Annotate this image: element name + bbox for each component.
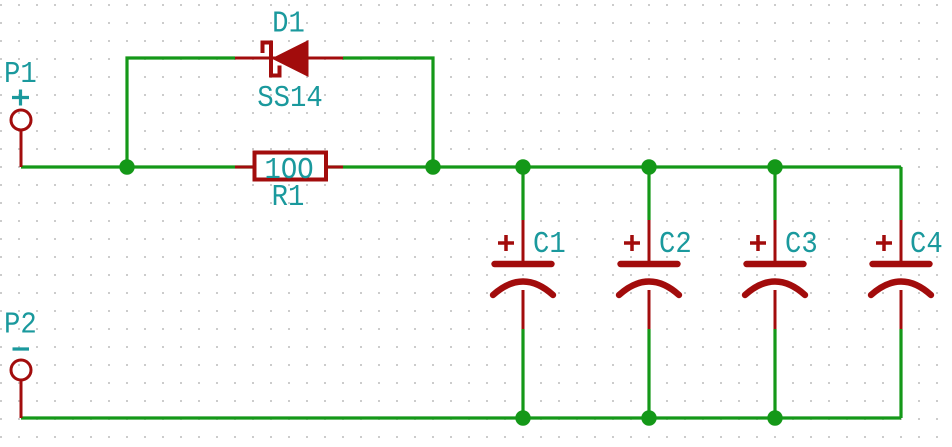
svg-text:P2: P2: [4, 307, 37, 342]
svg-text:C3: C3: [785, 227, 818, 262]
svg-text:C2: C2: [659, 227, 692, 262]
svg-text:C4: C4: [910, 227, 943, 262]
svg-text:SS14: SS14: [257, 81, 322, 116]
svg-text:C1: C1: [533, 227, 566, 262]
svg-text:P1: P1: [4, 57, 37, 92]
svg-text:R1: R1: [272, 180, 305, 215]
svg-text:D1: D1: [272, 6, 305, 41]
